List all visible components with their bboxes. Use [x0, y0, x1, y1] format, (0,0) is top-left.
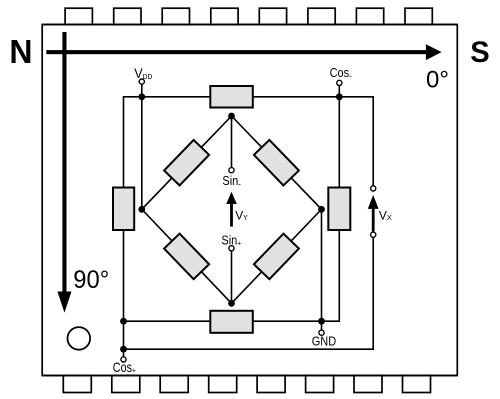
svg-text:0°: 0° — [426, 66, 449, 93]
terminal Sin+ — [229, 246, 234, 251]
pin 9 (bottom) — [403, 376, 431, 393]
terminal Vx lower — [371, 232, 376, 237]
resistor diamond lower-left — [164, 234, 209, 280]
junction Vdd — [138, 93, 145, 100]
label Sin- — [222, 175, 241, 190]
junction left rail / Vx return line — [120, 346, 127, 353]
resistor diamond upper-right — [254, 140, 299, 186]
label 90 degrees — [73, 266, 109, 294]
pin 1 indicator circle — [68, 327, 91, 350]
pin 1 (top) — [65, 8, 92, 24]
junction diamond left vertex — [138, 206, 145, 213]
pin 7 (top) — [356, 8, 383, 24]
svg-text:S: S — [470, 36, 489, 69]
label Vy — [235, 208, 248, 222]
label Cos- — [330, 66, 352, 81]
wire: Sin+ stub — [231, 248, 233, 303]
90-degree arrow (shaft) — [62, 32, 66, 292]
pin 8 (top) — [405, 8, 432, 24]
junction diamond right vertex — [318, 206, 325, 213]
resistor bridge top (horizontal) — [210, 86, 253, 108]
pin 16 (bottom) — [63, 376, 91, 393]
pin 2 (top) — [114, 8, 141, 24]
pin 5 (top) — [259, 8, 286, 24]
terminal GND — [319, 330, 324, 335]
label Cos+ — [113, 360, 136, 376]
pin 11 (bottom) — [306, 376, 334, 393]
svg-text:Cos-: Cos- — [330, 66, 352, 81]
Vy arrow (head) — [226, 192, 237, 204]
svg-text:Sin-: Sin- — [222, 175, 241, 190]
field arrow N to S (head) — [426, 44, 442, 60]
field arrow N to S (shaft) — [46, 50, 426, 54]
label Sin+ — [221, 234, 241, 248]
junction diamond bottom vertex — [228, 300, 235, 307]
label Vdd — [134, 65, 152, 81]
Vx arrow (head) — [368, 195, 379, 209]
resistor diamond upper-left — [164, 140, 209, 186]
wire: bridge bottom rail and right leg riser — [124, 83, 340, 321]
IC package body — [42, 25, 457, 376]
terminal Cos+ — [121, 357, 126, 362]
pin 12 (bottom) — [257, 376, 285, 393]
terminal Sin- — [229, 168, 234, 173]
svg-text:GND: GND — [312, 335, 336, 349]
label Vx — [379, 208, 392, 222]
terminal Vx upper — [371, 186, 376, 191]
Vx arrow (shaft) — [372, 208, 375, 231]
resistor bridge bottom (horizontal) — [210, 311, 253, 333]
label N — [9, 33, 32, 70]
terminal Vdd — [139, 79, 144, 84]
resistor diamond lower-right — [254, 234, 299, 280]
junction GND on bottom rail — [318, 318, 325, 325]
svg-text:N: N — [9, 33, 32, 70]
diamond bridge edges — [142, 116, 322, 303]
junction Cos- — [336, 93, 343, 100]
svg-text:90°: 90° — [73, 266, 109, 294]
wire: Sin- stub — [231, 116, 233, 170]
redraw package top/bottom edge over pins — [42, 24, 457, 26]
pin 10 (bottom) — [354, 376, 382, 393]
wire: Vdd stub down to diamond left vertex — [141, 82, 143, 210]
pin 6 (top) — [308, 8, 335, 24]
wire: Vx lower terminal down and across bottom to left rail — [124, 235, 374, 350]
label S — [470, 36, 489, 69]
wire: outer loop left rail, top rail, right rail to Vx upper terminal — [124, 97, 374, 360]
pin 14 (bottom) — [160, 376, 188, 393]
Vy arrow (shaft) — [230, 204, 233, 227]
pin 13 (bottom) — [209, 376, 237, 393]
junction left rail / bottom rail — [120, 318, 127, 325]
terminal Cos- — [337, 80, 342, 85]
90-degree arrow (head) — [57, 292, 71, 313]
pin 3 (top) — [162, 8, 189, 24]
wire: diamond right vertex down to GND terminal — [321, 209, 323, 332]
pin 15 (bottom) — [112, 376, 140, 393]
junction diamond top vertex — [228, 113, 235, 120]
pin 4 (top) — [211, 8, 238, 24]
resistor bridge right (vertical) — [328, 188, 350, 231]
label 0 degrees — [426, 66, 449, 93]
resistor bridge left (vertical) — [113, 188, 134, 231]
label GND — [312, 335, 336, 349]
